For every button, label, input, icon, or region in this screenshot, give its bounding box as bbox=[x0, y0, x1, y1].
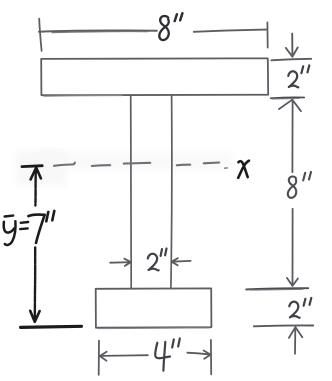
label 8 inch (right) digit 8 bbox=[288, 176, 296, 197]
label y-bar = 7 inch : overbar of y bbox=[5, 214, 14, 217]
web left line bbox=[130, 95, 133, 288]
label y-bar = 7 inch : equals sign bbox=[20, 222, 28, 229]
paper wash near centroid line bbox=[36, 152, 232, 170]
bottom flange bottom edge overdraw bbox=[98, 327, 209, 330]
centroid dashed line dash 5 bbox=[204, 161, 219, 164]
top flange (8in x 2in rectangle) bbox=[41, 58, 268, 95]
bottom 4in dimension: right shaft bbox=[187, 353, 208, 355]
y-bar dimension: bottom reference line (ink) bbox=[21, 326, 82, 327]
y-bar dimension: top tick bar (ink) bbox=[22, 164, 42, 168]
label y-bar = 7 inch : y bowl bbox=[4, 222, 14, 233]
label 2 inch (web) double prime bbox=[161, 249, 167, 256]
right 8in dimension: lower shaft bbox=[292, 209, 294, 284]
centroid dashed line dash 4 bbox=[177, 164, 190, 167]
bottom 4in dimension: right tick bbox=[210, 340, 212, 374]
web 2in dimension: left arrow shaft bbox=[110, 261, 128, 264]
centroid dashed line dash 2 bbox=[92, 164, 110, 167]
bottom 4in dimension: right arrowhead bbox=[204, 351, 211, 359]
bottom flange (4in x 2in rectangle) bbox=[96, 288, 212, 327]
label 8 inch (top) double prime bbox=[175, 13, 183, 21]
top dimension line left tick bbox=[39, 19, 41, 51]
label 2 inch (bottom right) digit 2 bbox=[289, 302, 299, 318]
top-right 2in dimension: down arrow shaft bbox=[291, 34, 293, 54]
web right line bbox=[170, 95, 173, 288]
top dimension line left segment bbox=[39, 31, 157, 32]
right 8in dimension: upper shaft bbox=[291, 100, 293, 172]
top dimension line right segment bbox=[194, 30, 267, 32]
y-bar dimension: down arrowhead bbox=[30, 311, 39, 322]
centroid dashed line dash 6 (small) bbox=[225, 167, 228, 169]
web 2in dimension: right arrow shaft bbox=[172, 260, 191, 263]
top-right 2in dimension: down arrowhead bbox=[286, 48, 298, 57]
top flange bottom edge overdraw bbox=[44, 95, 122, 98]
bottom 4in dimension: left tick bbox=[98, 341, 100, 375]
bottom 4in dimension: left shaft bbox=[100, 354, 148, 357]
node label x (centroid axis) stroke 1 bbox=[238, 161, 247, 177]
bottom 4in dimension: left arrowhead bbox=[100, 352, 107, 361]
y-bar dimension: up arrowhead bbox=[31, 168, 41, 180]
label 2 inch (bottom right) double prime bbox=[304, 298, 312, 306]
top dimension line right tick bbox=[266, 22, 268, 47]
label 8 inch (top) digit 8 bbox=[159, 16, 169, 40]
label y-bar = 7 inch : double prime bbox=[46, 211, 54, 221]
top-right extension line (flange top level) bbox=[271, 59, 311, 61]
top dimension line overdraw bbox=[52, 32, 148, 33]
label 2 inch (web) digit 2 bbox=[148, 254, 159, 271]
right extension line (bottom flange top level, scribbled) bbox=[246, 288, 308, 289]
right 8in dimension: lower arrowhead bbox=[287, 278, 298, 286]
y-bar dimension: lower shaft bbox=[34, 248, 37, 320]
label 4 inch (bottom) double prime bbox=[172, 339, 180, 348]
centroid dashed line dash 3 (crosses web) bbox=[124, 162, 150, 165]
label 4 inch (bottom) digit 4 bbox=[155, 343, 170, 359]
right 8in dimension: upper arrowhead bbox=[279, 100, 301, 112]
centroid dashed line dash 1 bbox=[54, 163, 75, 166]
label 8 inch (right) double prime bbox=[303, 172, 311, 181]
bottom-right 2in dimension: shaft bbox=[294, 328, 296, 354]
label 2 inch (top right) digit 2 bbox=[288, 71, 298, 87]
bottom-right 2in dimension: up arrowhead bbox=[289, 327, 302, 338]
label 2 inch (top right) double prime bbox=[301, 65, 309, 73]
label y-bar = 7 inch : digit 7 bbox=[28, 214, 44, 242]
web 2in dimension: left arrowhead bbox=[124, 259, 130, 266]
label y-bar = 7 inch : y right stem and descender bbox=[5, 221, 16, 245]
node label x (centroid axis) stroke 2 bbox=[238, 161, 249, 178]
paper wash near y-bar arrow bbox=[16, 150, 66, 186]
web 2in dimension: right arrowhead bbox=[172, 258, 178, 265]
top-right extension line (flange bottom level, scribbled) bbox=[271, 96, 304, 99]
y-bar dimension: upper shaft bbox=[34, 169, 37, 206]
right extension line (bottom flange bottom level) bbox=[254, 324, 313, 327]
